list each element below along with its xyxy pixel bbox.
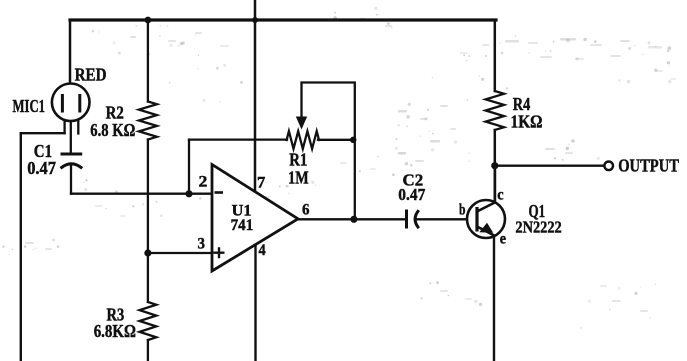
svg-text:b: b bbox=[459, 201, 466, 218]
svg-text:2N2222: 2N2222 bbox=[515, 217, 561, 236]
svg-text:3: 3 bbox=[198, 236, 206, 253]
svg-text:0.47: 0.47 bbox=[398, 185, 425, 204]
svg-text:1KΩ: 1KΩ bbox=[511, 112, 543, 132]
svg-text:c: c bbox=[497, 187, 503, 204]
svg-text:MIC1: MIC1 bbox=[13, 96, 46, 116]
svg-text:6.8 KΩ: 6.8 KΩ bbox=[90, 120, 135, 140]
svg-text:R1: R1 bbox=[289, 150, 307, 170]
svg-text:6: 6 bbox=[302, 202, 310, 219]
svg-text:7: 7 bbox=[257, 174, 265, 191]
svg-text:0.47: 0.47 bbox=[27, 158, 56, 178]
svg-text:1M: 1M bbox=[288, 168, 309, 188]
svg-text:4: 4 bbox=[259, 242, 266, 259]
svg-text:741: 741 bbox=[231, 217, 254, 234]
svg-text:2: 2 bbox=[199, 173, 208, 190]
svg-text:6.8KΩ: 6.8KΩ bbox=[94, 321, 136, 341]
svg-text:OUTPUT: OUTPUT bbox=[618, 155, 679, 175]
svg-text:RED: RED bbox=[75, 64, 107, 84]
svg-text:e: e bbox=[500, 231, 506, 248]
